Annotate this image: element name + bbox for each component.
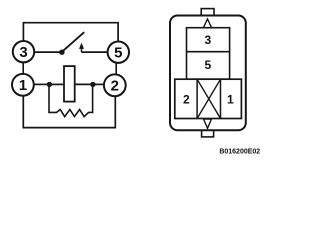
terminal circle 5 (108, 42, 129, 63)
terminal circle 2 (104, 74, 126, 96)
svg-text:5: 5 (205, 58, 212, 72)
connector top tab (201, 9, 214, 18)
terminal circle 3 (13, 41, 34, 62)
switch arm (relay contact) (63, 32, 85, 51)
wire link terminal 3 to terminal 1 (22, 62, 24, 74)
wire bottom rail terminal 1 to terminal 2 (23, 96, 115, 128)
divider between cells 3 and 5 (187, 51, 230, 53)
wire terminal 1 to node L (34, 83, 49, 85)
wire node L to relay coil (49, 83, 64, 85)
resistor (parallel with coil) (49, 86, 93, 117)
terminal circle 1 (12, 74, 34, 96)
terminal block 3/5 (187, 28, 230, 79)
connector bottom tab (202, 129, 214, 137)
svg-text:1: 1 (227, 93, 234, 107)
connector body (170, 16, 246, 131)
node L junction dot (47, 82, 52, 87)
svg-text:2: 2 (183, 93, 190, 107)
svg-text:3: 3 (19, 44, 27, 61)
top index triangle (203, 19, 211, 28)
wire link terminal 5 to terminal 2 (115, 63, 117, 75)
bottom index triangle (204, 119, 212, 128)
relay coil (64, 66, 75, 102)
node R junction dot (90, 82, 95, 87)
svg-text:5: 5 (114, 45, 122, 62)
svg-text:2: 2 (111, 78, 119, 95)
wire switch to terminal 5 (82, 51, 108, 53)
svg-text:B016200E02: B016200E02 (219, 149, 260, 156)
wire coil to node R (75, 83, 93, 85)
switch contact arrow (79, 43, 84, 49)
wire top rail from terminal 3 to terminal 5 (23, 23, 118, 42)
switch pivot junction dot (59, 50, 64, 55)
switch contact lead (81, 48, 83, 52)
wire terminal 3 to switch pivot (34, 51, 60, 53)
svg-text:3: 3 (205, 33, 212, 47)
pin row 2 / X / 1 (175, 79, 242, 118)
keyway box with cross (196, 79, 198, 118)
wire node R to terminal 2 (93, 83, 104, 85)
svg-text:1: 1 (19, 77, 27, 94)
